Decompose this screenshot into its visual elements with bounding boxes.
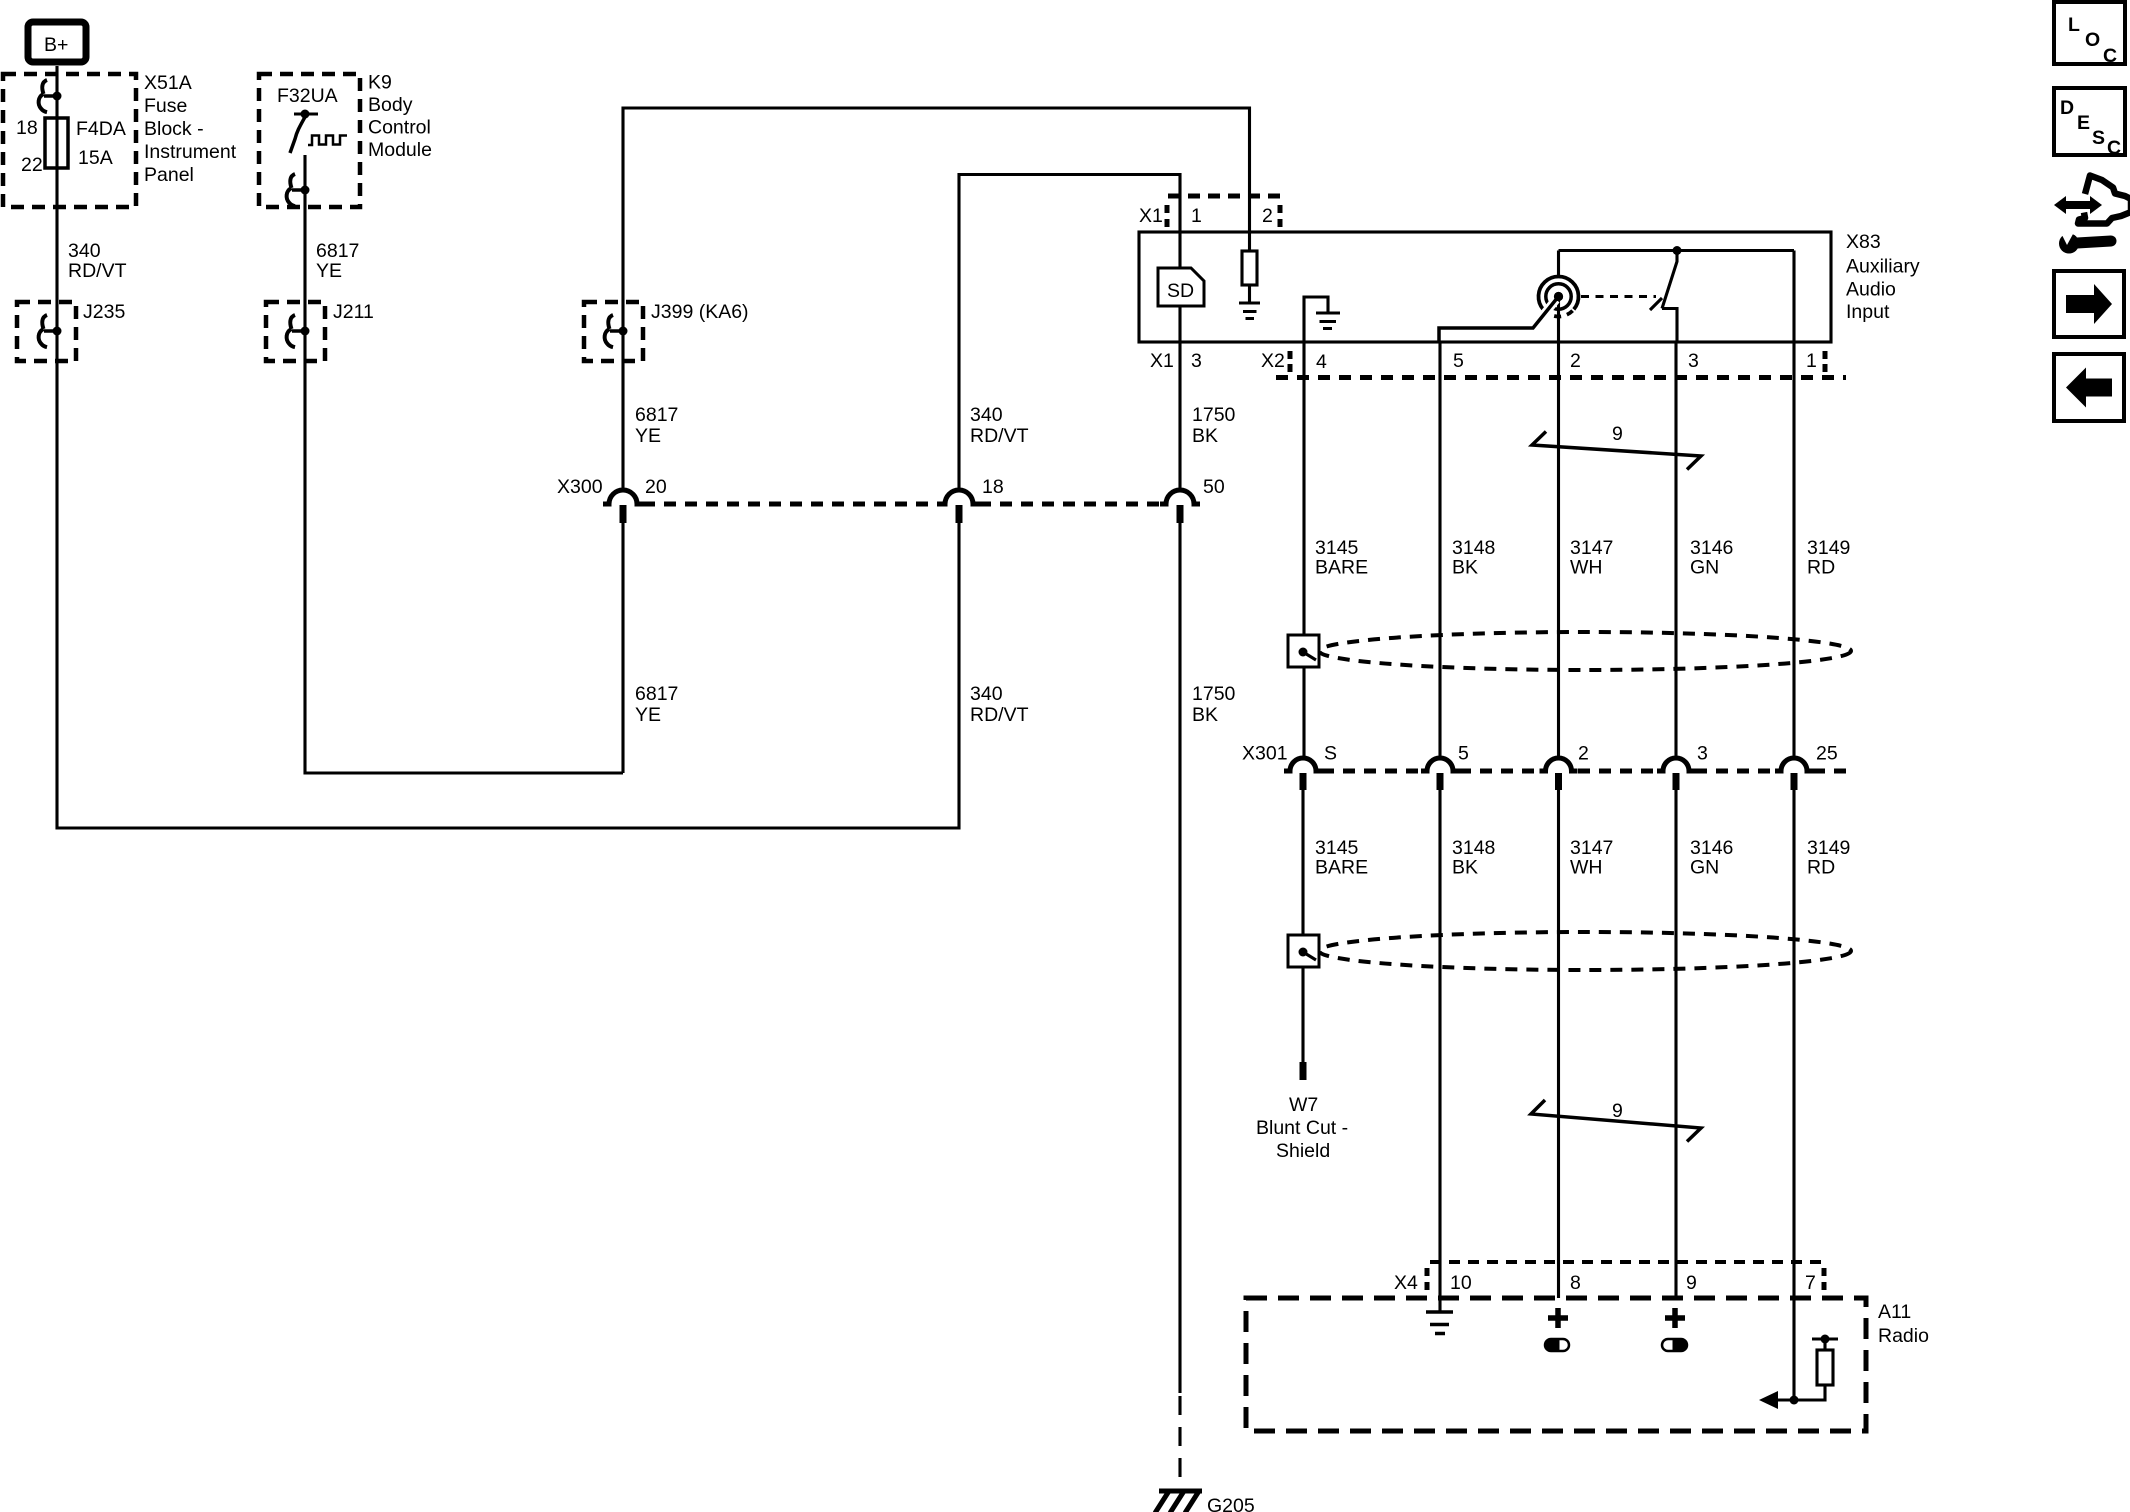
svg-text:G205: G205 xyxy=(1207,1495,1255,1512)
svg-text:J211: J211 xyxy=(333,301,374,323)
svg-text:9: 9 xyxy=(1686,1272,1697,1294)
svg-text:X1: X1 xyxy=(1139,205,1163,227)
svg-text:F4DA: F4DA xyxy=(76,118,126,140)
svg-text:9: 9 xyxy=(1612,1100,1623,1122)
svg-text:RD: RD xyxy=(1807,557,1835,579)
svg-text:2: 2 xyxy=(1262,205,1273,227)
svg-text:Blunt Cut -: Blunt Cut - xyxy=(1256,1117,1348,1139)
svg-text:Body: Body xyxy=(368,94,413,116)
svg-text:SD: SD xyxy=(1167,280,1194,302)
svg-text:Panel: Panel xyxy=(144,164,194,186)
svg-text:BARE: BARE xyxy=(1315,557,1368,579)
svg-text:25: 25 xyxy=(1816,743,1838,765)
svg-text:O: O xyxy=(2085,29,2100,51)
svg-text:L: L xyxy=(2068,14,2080,36)
svg-text:1: 1 xyxy=(1191,205,1202,227)
svg-text:5: 5 xyxy=(1453,350,1464,372)
svg-text:1750: 1750 xyxy=(1192,404,1236,426)
svg-text:9: 9 xyxy=(1612,423,1623,445)
svg-text:F32UA: F32UA xyxy=(277,85,338,107)
svg-text:S: S xyxy=(2092,127,2105,149)
svg-text:6817: 6817 xyxy=(635,404,678,426)
svg-text:340: 340 xyxy=(970,404,1003,426)
svg-text:10: 10 xyxy=(1450,1272,1472,1294)
svg-text:340: 340 xyxy=(68,240,101,262)
svg-text:WH: WH xyxy=(1570,557,1603,579)
svg-text:3: 3 xyxy=(1688,350,1699,372)
svg-text:YE: YE xyxy=(635,425,661,447)
svg-text:S: S xyxy=(1324,743,1337,765)
svg-text:J399 (KA6): J399 (KA6) xyxy=(651,301,749,323)
svg-text:X83: X83 xyxy=(1846,231,1881,253)
svg-text:2: 2 xyxy=(1570,350,1581,372)
svg-text:6817: 6817 xyxy=(635,683,678,705)
svg-text:X2: X2 xyxy=(1261,350,1285,372)
svg-text:18: 18 xyxy=(16,117,38,139)
svg-text:2: 2 xyxy=(1578,743,1589,765)
svg-text:BK: BK xyxy=(1452,857,1478,879)
svg-text:8: 8 xyxy=(1570,1272,1581,1294)
svg-text:Radio: Radio xyxy=(1878,1325,1929,1347)
svg-text:E: E xyxy=(2077,112,2090,134)
svg-text:Auxiliary: Auxiliary xyxy=(1846,256,1920,278)
svg-text:C: C xyxy=(2103,45,2117,67)
svg-text:RD/VT: RD/VT xyxy=(68,260,127,282)
svg-text:RD: RD xyxy=(1807,857,1835,879)
svg-text:BK: BK xyxy=(1452,557,1478,579)
svg-text:WH: WH xyxy=(1570,857,1603,879)
svg-text:BK: BK xyxy=(1192,704,1218,726)
svg-text:3: 3 xyxy=(1697,743,1708,765)
svg-text:Control: Control xyxy=(368,117,431,139)
svg-text:GN: GN xyxy=(1690,557,1719,579)
svg-text:D: D xyxy=(2060,97,2074,119)
svg-text:X301: X301 xyxy=(1242,743,1288,765)
svg-text:22: 22 xyxy=(21,154,43,176)
svg-text:A11: A11 xyxy=(1878,1301,1911,1323)
svg-text:3: 3 xyxy=(1191,350,1202,372)
svg-text:RD/VT: RD/VT xyxy=(970,704,1029,726)
svg-text:BARE: BARE xyxy=(1315,857,1368,879)
svg-text:K9: K9 xyxy=(368,72,392,94)
svg-text:Instrument: Instrument xyxy=(144,141,237,163)
svg-text:340: 340 xyxy=(970,683,1003,705)
svg-text:X300: X300 xyxy=(557,476,603,498)
svg-text:Block -: Block - xyxy=(144,118,204,140)
svg-text:GN: GN xyxy=(1690,857,1719,879)
svg-text:X1: X1 xyxy=(1150,350,1174,372)
svg-text:6817: 6817 xyxy=(316,240,359,262)
svg-text:RD/VT: RD/VT xyxy=(970,425,1029,447)
svg-text:4: 4 xyxy=(1316,351,1327,373)
svg-text:1750: 1750 xyxy=(1192,683,1236,705)
svg-text:X51A: X51A xyxy=(144,72,192,94)
svg-text:20: 20 xyxy=(645,476,667,498)
svg-text:5: 5 xyxy=(1458,743,1469,765)
svg-text:W7: W7 xyxy=(1289,1094,1318,1116)
svg-text:BK: BK xyxy=(1192,425,1218,447)
svg-text:Shield: Shield xyxy=(1276,1140,1330,1162)
svg-text:B+: B+ xyxy=(44,34,68,56)
svg-text:YE: YE xyxy=(635,704,661,726)
svg-text:50: 50 xyxy=(1203,476,1225,498)
svg-text:15A: 15A xyxy=(78,147,113,169)
svg-text:18: 18 xyxy=(982,476,1004,498)
svg-text:YE: YE xyxy=(316,260,342,282)
svg-text:J235: J235 xyxy=(83,301,125,323)
svg-text:Input: Input xyxy=(1846,301,1890,323)
svg-text:7: 7 xyxy=(1805,1272,1816,1294)
svg-text:Audio: Audio xyxy=(1846,279,1896,301)
svg-text:1: 1 xyxy=(1806,350,1817,372)
svg-text:Module: Module xyxy=(368,139,432,161)
svg-text:X4: X4 xyxy=(1394,1272,1418,1294)
svg-text:Fuse: Fuse xyxy=(144,95,187,117)
svg-text:C: C xyxy=(2107,137,2121,159)
